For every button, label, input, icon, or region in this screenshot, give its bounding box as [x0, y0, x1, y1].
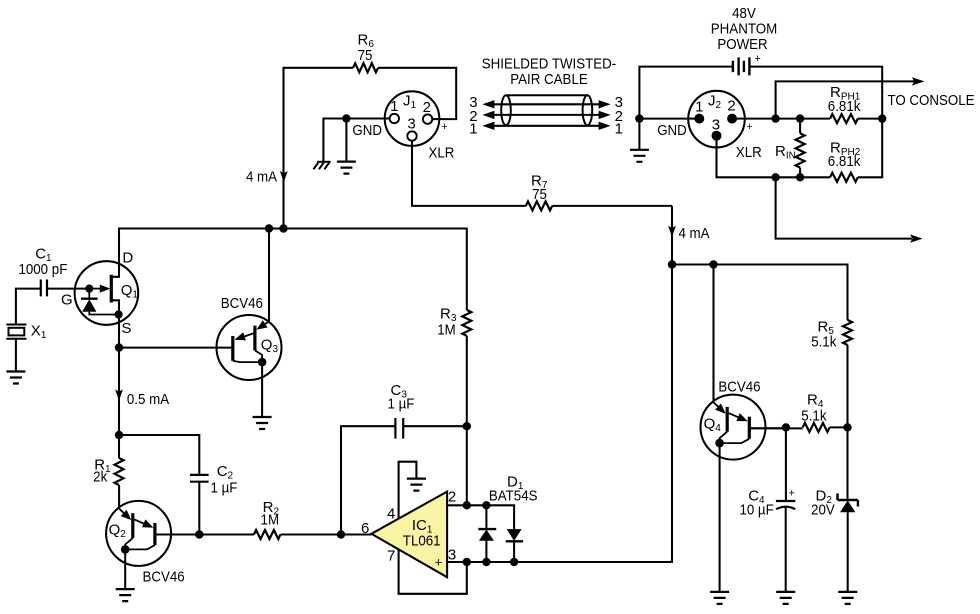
- wire J2 gnd node to pin 1: [639, 118, 699, 120]
- wire J1 pin 3 to R7: [412, 140, 526, 206]
- wire to console bottom arrow: [776, 177, 912, 238]
- svg-text:PAIR CABLE: PAIR CABLE: [510, 71, 588, 88]
- diode D1 right (BAT54S): [506, 529, 523, 541]
- svg-text:6: 6: [361, 520, 369, 537]
- ground J1: [337, 162, 356, 174]
- wire R3 lower segment: [466, 336, 468, 505]
- wire J2 pin3 row: [717, 141, 831, 178]
- svg-text:PHANTOM: PHANTOM: [711, 20, 777, 37]
- svg-text:XLR: XLR: [736, 144, 762, 161]
- wire Q2 output to R2: [156, 533, 254, 535]
- svg-text:1M: 1M: [261, 511, 280, 528]
- transistor Q4 darlington BCV46: [701, 395, 786, 460]
- wire Q4 output to R4: [750, 427, 848, 428]
- battery 48V: [733, 57, 750, 75]
- svg-text:+: +: [788, 487, 794, 499]
- resistor R1: [115, 458, 124, 485]
- cable arrows right: [599, 100, 611, 130]
- wire battery left to J2 gnd node: [639, 67, 733, 119]
- svg-text:4 mA: 4 mA: [678, 225, 709, 242]
- zener diode D2: [838, 493, 858, 512]
- resistor R5: [843, 320, 852, 345]
- junction D1 left diode at pin3 wire: [482, 558, 490, 566]
- resistor R2: [254, 530, 281, 539]
- svg-text:0.5 mA: 0.5 mA: [127, 391, 169, 408]
- svg-text:1 µF: 1 µF: [211, 480, 238, 497]
- wire C2 bottom to output bus: [198, 482, 200, 535]
- wire C4 branch: [785, 427, 787, 592]
- wire IC1 pin4 to ground: [399, 462, 417, 519]
- svg-text:48V: 48V: [732, 5, 756, 22]
- wire C3 left branch: [341, 426, 395, 534]
- svg-text:BCV46: BCV46: [143, 569, 185, 586]
- svg-text:+: +: [435, 555, 443, 570]
- junction C3 right at R3: [463, 422, 471, 430]
- wire X1 to ground: [15, 339, 17, 372]
- resistor R7: [526, 201, 552, 210]
- svg-text:3: 3: [448, 547, 456, 564]
- svg-text:20V: 20V: [811, 502, 835, 519]
- wire J1 GND to pin 1: [323, 119, 390, 162]
- wire D1 left diode leads: [485, 505, 487, 562]
- junction Q4 output C4 node: [782, 423, 790, 431]
- junction J1 GND node: [342, 114, 350, 122]
- wire RPH1 right: [858, 118, 882, 120]
- ground J2: [630, 150, 649, 162]
- svg-text:5.1k: 5.1k: [811, 333, 837, 350]
- wire IC1 pin7 loop: [399, 549, 467, 594]
- node S Q1 source: [115, 343, 123, 351]
- ground X1: [6, 372, 25, 384]
- wire R1 bottom into Q2: [118, 485, 120, 509]
- capacitor C4 polarized: [776, 501, 796, 509]
- diode D1 left (BAT54S): [478, 529, 496, 541]
- svg-text:1: 1: [469, 121, 477, 138]
- wire battery right down to RPH rail: [749, 67, 882, 178]
- XLR connector J1: [385, 91, 440, 146]
- junction J2 pin2 to console branch: [771, 114, 779, 122]
- junction RIN bottom: [796, 173, 804, 181]
- svg-text:1: 1: [615, 121, 623, 138]
- wire C3 right to R3 node: [403, 425, 467, 427]
- svg-text:3: 3: [407, 116, 415, 133]
- svg-text:S: S: [121, 320, 131, 337]
- transistor Q2 darlington BCV46: [106, 501, 171, 566]
- wire D1 right diode lead: [513, 541, 515, 562]
- wire Q4 collector to ground: [719, 443, 721, 592]
- arrow 0.5mA: [115, 389, 123, 400]
- svg-text:7: 7: [387, 548, 395, 565]
- junction C2 bottom at Q2 output: [195, 530, 203, 538]
- capacitor C1: [41, 280, 47, 297]
- ground D2: [838, 592, 857, 604]
- svg-text:4 mA: 4 mA: [246, 169, 277, 186]
- resistor RPH1: [830, 114, 858, 123]
- wire S-node down 0.5mA to R1: [118, 348, 120, 458]
- wire R7 right into riser: [552, 205, 672, 207]
- XLR connector J2: [688, 91, 745, 148]
- svg-text:BCV46: BCV46: [718, 379, 760, 396]
- junction D1 left diode at pin2 wire: [482, 501, 490, 509]
- wire J2 gnd stub: [638, 119, 640, 150]
- transistor Q1 jfet: [75, 261, 139, 325]
- junction J2 pin3 to console branch: [771, 173, 779, 181]
- junction battery plus at RPH1: [878, 114, 886, 122]
- svg-text:+: +: [746, 121, 752, 133]
- wire Q4 base drop: [712, 265, 714, 403]
- wire R2 to IC1 input: [281, 533, 372, 535]
- junction R4 R5 D2 node: [843, 423, 851, 431]
- svg-text:SHIELDED TWISTED-: SHIELDED TWISTED-: [482, 55, 616, 72]
- svg-text:1: 1: [695, 99, 703, 116]
- svg-text:BAT54S: BAT54S: [489, 487, 538, 504]
- wire J1 gnd stub: [345, 119, 347, 162]
- wire cable conductor 1: [490, 125, 602, 127]
- capacitor C3: [395, 418, 403, 439]
- junction R7 riser at rail 2: [668, 260, 676, 268]
- wire S-node to Q3 base: [119, 347, 233, 349]
- shielded cable shield cylinder: [501, 95, 592, 125]
- svg-text:+: +: [754, 53, 760, 65]
- svg-text:GND: GND: [352, 122, 382, 139]
- op-amp IC1 TL061: [371, 492, 447, 578]
- junction RIN top: [796, 114, 804, 122]
- junction D1 right diode at pin3 wire: [510, 558, 518, 566]
- ground IC1 pin4: [407, 479, 426, 491]
- wire R6 left branch with 4mA: [284, 68, 354, 229]
- svg-text:D: D: [122, 250, 133, 267]
- arrow 4mA left: [280, 171, 288, 182]
- svg-text:1 µF: 1 µF: [388, 396, 415, 413]
- wire riser x672 down to pin3 bus: [447, 206, 672, 562]
- junction R1 top C2 branch: [115, 431, 123, 439]
- arrow to console bottom: [910, 234, 923, 242]
- ground Q3: [253, 417, 272, 429]
- arrow to console top: [912, 77, 925, 85]
- wire R6 right to J1 pin 2: [378, 68, 456, 119]
- arrow 4mA right: [668, 226, 676, 237]
- svg-text:1000 pF: 1000 pF: [18, 261, 67, 278]
- wire top-left rail from Q1 drain to R3 top: [111, 229, 467, 310]
- resistor R4: [803, 423, 830, 432]
- ground Q2: [116, 589, 135, 601]
- svg-text:XLR: XLR: [428, 145, 454, 162]
- wire to console top arrow: [776, 81, 915, 118]
- svg-text:+: +: [441, 121, 447, 133]
- junction Q4 base branch at rail 2: [709, 260, 717, 268]
- junction R6 branch at supply rail: [279, 224, 287, 232]
- svg-text:POWER: POWER: [717, 36, 767, 53]
- wire node to C2 top: [119, 435, 199, 475]
- svg-text:BCV46: BCV46: [221, 295, 263, 312]
- ground C4: [776, 592, 795, 604]
- svg-text:2: 2: [423, 99, 431, 116]
- wire C1 to Q1 gate: [47, 288, 89, 290]
- svg-text:4: 4: [387, 505, 395, 522]
- wire IC1 pin2 to D1: [447, 505, 514, 529]
- svg-text:75: 75: [532, 186, 547, 203]
- wire cable conductor 3: [490, 103, 602, 105]
- resistor R3: [462, 310, 471, 336]
- svg-text:6.81k: 6.81k: [828, 98, 861, 115]
- svg-text:10 µF: 10 µF: [739, 502, 773, 519]
- capacitor C2: [190, 475, 209, 482]
- svg-text:TL061: TL061: [403, 533, 441, 550]
- svg-text:G: G: [61, 292, 73, 309]
- resistor RIN: [796, 133, 805, 167]
- wire Q3 collector to ground: [261, 362, 263, 417]
- wire Q1 source to node: [111, 300, 119, 347]
- ground Q4: [710, 592, 729, 604]
- ground chassis J1: [313, 162, 330, 170]
- resistor RPH2: [830, 173, 858, 182]
- svg-text:2: 2: [727, 98, 735, 115]
- resistor R6: [353, 63, 378, 72]
- cable arrows left: [482, 100, 494, 130]
- wire C1 input from X1: [16, 289, 41, 325]
- wire Q2 collector to ground: [124, 549, 126, 589]
- junction C3 branch at IC1 input: [337, 530, 345, 538]
- wire R5 bottom to R4 node: [846, 345, 848, 427]
- wire D2 branch: [846, 427, 848, 592]
- wire Q3 emitter riser: [268, 229, 270, 322]
- svg-text:TO CONSOLE: TO CONSOLE: [887, 92, 974, 109]
- wire rail2 right: [672, 265, 848, 320]
- transistor Q3 darlington BCV46: [217, 315, 282, 380]
- svg-text:75: 75: [358, 47, 373, 64]
- svg-text:5.1k: 5.1k: [801, 408, 827, 425]
- svg-text:3: 3: [712, 117, 720, 134]
- wire J2 pin2 to RPH1: [732, 118, 830, 120]
- svg-text:2k: 2k: [93, 469, 108, 486]
- junction R3 bottom at IC1 pin2: [463, 501, 471, 509]
- wire RIN leads: [799, 119, 801, 178]
- wire cable conductor 2: [490, 114, 602, 116]
- junction Q3 emitter at supply rail: [265, 224, 273, 232]
- svg-text:2: 2: [448, 489, 456, 506]
- junction pin7 loop at pin3 wire: [463, 558, 471, 566]
- svg-text:GND: GND: [657, 122, 687, 139]
- svg-text:1: 1: [390, 98, 398, 115]
- crystal X1: [6, 325, 26, 339]
- junction battery minus at J2 gnd: [635, 114, 643, 122]
- svg-text:6.81k: 6.81k: [828, 153, 861, 170]
- svg-text:1M: 1M: [437, 322, 456, 339]
